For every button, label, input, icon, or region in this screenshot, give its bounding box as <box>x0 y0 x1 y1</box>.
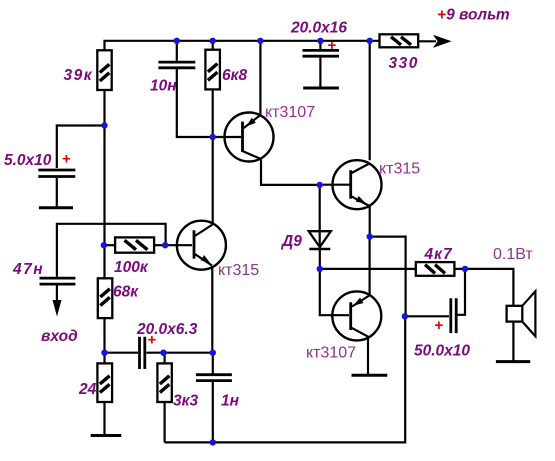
wire: output node right and down to Q4 emitter top <box>370 237 406 269</box>
svg-text:100к: 100к <box>114 259 149 276</box>
capacitor C5 47н <box>40 278 76 284</box>
wire: C2 tap node down to R4/R5 node (crosses input wire) <box>103 126 105 246</box>
wire: R1 bottom to C2 tap node <box>103 90 105 126</box>
ground under speaker <box>496 360 530 363</box>
svg-text:50.0x10: 50.0x10 <box>414 343 470 360</box>
transistor Q1 кт3107 (PNP) <box>213 113 274 162</box>
svg-text:10н: 10н <box>150 78 177 95</box>
ground under C2 <box>39 206 73 209</box>
wire: speaker to ground <box>512 322 514 361</box>
wire: tap node to C2 5.0x10 top <box>57 126 105 169</box>
svg-text:4к7: 4к7 <box>424 246 453 263</box>
node: divider R4 left <box>101 242 107 248</box>
capacitor C8 1н <box>196 375 232 381</box>
node: Q2 emitter-C8 <box>210 350 216 356</box>
node: R5-C7 <box>101 350 107 356</box>
diode D1 Д9 <box>309 231 331 249</box>
resistor R7 3к3 <box>157 363 171 402</box>
capacitor C6 50.0x10 <box>451 298 456 333</box>
capacitor C2 5.0x10 <box>38 170 75 177</box>
wire and arrow: +9V feed <box>418 35 451 48</box>
wire: Q3 base node down to diode <box>319 185 321 249</box>
wire: R7 bottom to bottom rail <box>164 402 166 442</box>
wire: C3 bottom to ground <box>319 58 321 87</box>
capacitor C3 20.0x16 <box>303 50 340 56</box>
ground under C3 <box>303 87 339 90</box>
svg-text:3к3: 3к3 <box>173 393 198 410</box>
wire: C1 bottom to Q1 base node <box>177 69 213 137</box>
svg-text:+: + <box>148 332 157 349</box>
wire: C8 bottom to bottom rail <box>212 382 214 443</box>
wire: rail to Q3 collector <box>369 41 371 161</box>
node: Q3 base <box>317 182 323 188</box>
svg-text:68к: 68к <box>113 284 139 301</box>
svg-text:+: + <box>328 37 337 54</box>
wire: divider node to R4 left <box>104 244 116 246</box>
node: R9 right <box>462 266 468 272</box>
wire: R4 right to Q2 base node <box>154 244 166 246</box>
svg-text:Д9: Д9 <box>280 233 302 250</box>
svg-text:+: + <box>62 151 71 168</box>
wire: speaker node to C6 left plate <box>405 315 449 317</box>
speaker LS1 <box>507 291 536 336</box>
svg-text:5.0x10: 5.0x10 <box>4 152 52 169</box>
node: speaker feed <box>402 313 408 319</box>
wire: rail to Q1 emitter <box>259 41 261 115</box>
svg-text:20.0x16: 20.0x16 <box>290 20 347 37</box>
svg-text:кт3107: кт3107 <box>265 104 315 121</box>
svg-text:330: 330 <box>389 55 419 72</box>
wire: C7 right plate to R7 node <box>146 352 163 354</box>
svg-text:24: 24 <box>78 381 97 398</box>
node: rail-C1 <box>174 38 180 44</box>
wire: rail to R2 top <box>212 41 214 50</box>
svg-text:кт315: кт315 <box>218 262 259 279</box>
node: Q2 base <box>162 242 168 248</box>
node: C2 tap <box>101 122 107 128</box>
svg-text:6к8: 6к8 <box>222 67 247 84</box>
node: rail-Q1 emitter <box>257 38 263 44</box>
wire: +9V top rail with corner down to R1 top <box>105 41 380 51</box>
wire: R7 node to R7 top <box>164 353 166 364</box>
svg-text:39к: 39к <box>64 67 94 84</box>
resistor R6 24 <box>97 363 112 402</box>
svg-text:кт3107: кт3107 <box>306 345 356 362</box>
wire: R2 bottom to Q1 base node and down to Q2 collector <box>212 89 214 224</box>
wire: rail to C3 top <box>319 41 321 49</box>
wire: R6 bottom to ground <box>103 402 105 435</box>
input arrow вход <box>53 286 62 317</box>
wire: bottom rail <box>165 316 406 442</box>
svg-text:0.1Вт: 0.1Вт <box>493 246 533 263</box>
transistor Q3 кт315 (NPN) <box>321 160 382 209</box>
svg-text:кт315: кт315 <box>379 161 420 178</box>
wire: R5 bottom to C7/R6 node <box>103 318 105 353</box>
wire: Q3 emitter down to output node <box>369 206 371 236</box>
wire: R7 node to Q2 emitter node <box>164 352 213 354</box>
wire: Q2 base node to base <box>166 244 192 246</box>
wire: Q4 collector to ground <box>367 337 369 374</box>
wire: C7/R6 node to C7 left plate <box>105 352 139 354</box>
wire: input top wire from C5 to Q2 base node <box>57 224 166 277</box>
wire: C2 bottom to ground <box>56 178 58 207</box>
capacitor C7 20.0x6.3 <box>140 337 145 369</box>
wire: diode bottom to R9 node <box>319 249 321 269</box>
capacitor C1 10н <box>158 62 195 68</box>
resistor R1 39к <box>97 50 111 90</box>
wire: divider node to R5 top <box>103 245 105 278</box>
node: diode bottom <box>317 266 323 272</box>
transistor Q2 кт315 (NPN) <box>177 221 226 270</box>
transistor Q4 кт3107 (PNP) <box>332 291 381 340</box>
svg-text:+9 вольт: +9 вольт <box>437 7 510 24</box>
wire: output node down to Q4 emitter <box>369 237 371 295</box>
ground under R6 <box>91 434 122 437</box>
wire: crossing down to speaker node <box>405 269 407 316</box>
resistor R9 4к7 <box>416 262 455 276</box>
resistor R3 330 <box>380 34 419 47</box>
ground under Q4 <box>352 374 388 377</box>
svg-text:20.0x6.3: 20.0x6.3 <box>136 321 198 338</box>
wire: Q4 base from diode node <box>320 269 349 315</box>
junction to C6 right plate <box>458 269 466 315</box>
node: Q1 base <box>210 134 216 140</box>
svg-text:+: + <box>435 317 444 334</box>
wire: C7/R6 node to R6 top <box>103 353 105 364</box>
svg-text:47н: 47н <box>12 261 44 278</box>
wire: Q2 emitter node to C8 top <box>212 353 214 374</box>
resistor R5 68к <box>98 278 113 318</box>
resistor R2 6к8 <box>205 50 220 90</box>
node: rail-Q3 collector <box>367 38 373 44</box>
wire: Q1 collector to Q3 base node <box>261 159 320 185</box>
node: output emitters <box>367 233 373 239</box>
svg-text:1н: 1н <box>221 393 240 410</box>
wire: Q2 emitter down to feedback node <box>211 266 213 353</box>
node: rail-R2 <box>210 38 216 44</box>
wire: diode node to R9 4к7 <box>320 268 416 270</box>
node: rail-C3 <box>317 38 323 44</box>
node: C8 bottom rail <box>210 439 216 445</box>
wire: rail to C1 top <box>176 41 178 61</box>
wire: R9 right to speaker <box>454 269 513 305</box>
resistor R4 100к <box>115 237 154 252</box>
svg-text:вход: вход <box>41 328 78 345</box>
node: C7-R7 <box>160 350 166 356</box>
